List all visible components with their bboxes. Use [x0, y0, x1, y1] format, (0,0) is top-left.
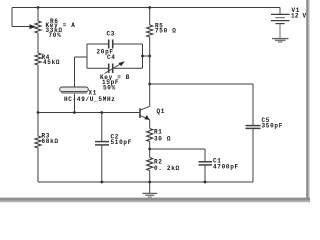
label R4 refdes: [42, 54, 51, 61]
ground symbol at emitter divider: [142, 182, 157, 197]
svg-text:C3: C3: [107, 30, 116, 37]
label R3 refdes: [42, 133, 51, 140]
label C3 refdes: [107, 30, 116, 37]
resistor R2: [147, 149, 153, 182]
label C4 refdes: [107, 54, 116, 61]
label V1 value 12 V: [291, 12, 307, 19]
label C1 refdes: [213, 157, 222, 164]
wire cap-box right edge: [142, 44, 144, 68]
capacitor C4 variable arrow: [105, 61, 125, 73]
label C2 refdes: [111, 133, 120, 140]
svg-text:Q1: Q1: [157, 108, 166, 115]
svg-text:350pF: 350pF: [262, 123, 284, 130]
label R6 value 33kOhm: [46, 27, 63, 34]
junction dot collector line at box: [148, 55, 151, 58]
svg-text:45kΩ: 45kΩ: [43, 59, 60, 66]
wire cap-box top edge: [87, 43, 143, 45]
svg-text:50%: 50%: [103, 84, 116, 91]
svg-text:4700pF: 4700pF: [213, 163, 239, 170]
resistor R4: [35, 53, 41, 113]
battery V1 12V source: [271, 8, 290, 38]
label C1 value 4700pF: [213, 163, 239, 170]
window border right: [306, 0, 309, 199]
svg-text:750 Ω: 750 Ω: [155, 28, 177, 35]
junction dot top rail at R6: [37, 6, 40, 9]
label R5 refdes: [155, 22, 164, 29]
wire crystal branch upper: [75, 57, 88, 88]
crystal X1 can body: [60, 87, 89, 94]
wire cap-box to collector line: [143, 55, 150, 57]
label Q1 refdes: [157, 108, 166, 115]
label R1 value 30 Ohm: [154, 136, 171, 143]
wire cap-box bottom edge: [87, 67, 143, 69]
label C3 value 20pF: [97, 48, 114, 55]
capacitor C4 plates: [109, 64, 113, 74]
junction dot base/crystal branch: [73, 111, 76, 114]
svg-text:510pF: 510pF: [111, 139, 133, 146]
junction dot bottom rail at C1: [204, 181, 207, 184]
wire emitter node to C1: [150, 149, 205, 161]
label R3 value 68kOhm: [42, 138, 59, 145]
svg-text:R1: R1: [154, 129, 163, 136]
junction dot box right edge: [141, 55, 144, 58]
potentiometer R6 wiper arrow: [12, 8, 38, 30]
capacitor C1: [199, 162, 213, 182]
label R6 setting 70%: [49, 32, 62, 39]
label R4 value 45kOhm: [43, 59, 60, 66]
wire top power rail: [12, 7, 280, 9]
junction dot base/left branch: [37, 111, 40, 114]
label X1 refdes: [89, 90, 98, 97]
ground symbol at battery: [272, 39, 289, 42]
label R1 refdes: [154, 129, 163, 136]
capacitor C3: [109, 40, 113, 49]
label R2 refdes: [154, 158, 163, 165]
wire bottom ground rail: [38, 181, 253, 183]
label C5 value 350pF: [262, 123, 284, 130]
transistor Q1: [140, 84, 150, 120]
junction dot base/C2 branch: [100, 111, 103, 114]
capacitor C2: [95, 113, 109, 183]
wire cap-box left edge: [86, 44, 88, 68]
svg-text:HC-49/U_5MHz: HC-49/U_5MHz: [64, 96, 116, 103]
label C2 value 510pF: [111, 139, 133, 146]
junction dot emitter node: [148, 148, 151, 151]
junction dot bottom rail at R2: [148, 181, 151, 184]
label R6 refdes: [50, 18, 59, 25]
svg-text:0. 2kΩ: 0. 2kΩ: [154, 165, 180, 172]
label C4 value 15pF: [102, 79, 119, 86]
junction dot bottom rail at C2: [100, 181, 103, 184]
wire collector to C5: [150, 84, 253, 125]
svg-text:12 V: 12 V: [291, 12, 307, 19]
resistor R5: [147, 8, 153, 85]
resistor R3: [35, 113, 41, 183]
capacitor C5: [246, 126, 261, 182]
label V1 refdes: [292, 7, 301, 14]
label C4 key: [100, 74, 130, 81]
potentiometer R6 body: [35, 8, 41, 54]
junction dot top rail at R5: [148, 6, 151, 9]
label R6 key: [46, 22, 76, 29]
label C4 setting 50%: [103, 84, 116, 91]
label C5 refdes: [262, 117, 271, 124]
label R5 value 750 Ohm: [155, 28, 177, 35]
wire crystal branch lower: [74, 94, 76, 113]
label R2 value 0.2kOhm: [154, 165, 180, 172]
label X1 part HC-49/U_5MHz: [64, 96, 116, 103]
svg-text:70%: 70%: [49, 32, 62, 39]
svg-text:68kΩ: 68kΩ: [42, 138, 59, 145]
resistor R1: [147, 120, 153, 149]
junction dot collector node: [148, 83, 151, 86]
wire base node horizontal: [38, 112, 139, 114]
svg-text:C4: C4: [107, 54, 116, 61]
window border bottom: [0, 198, 310, 203]
svg-text:30 Ω: 30 Ω: [154, 136, 171, 143]
